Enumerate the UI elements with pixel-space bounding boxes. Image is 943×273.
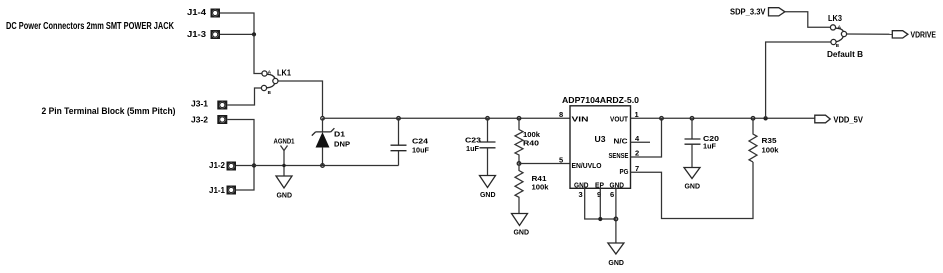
- capacitor C20: [685, 118, 701, 167]
- svg-text:GND: GND: [610, 180, 625, 189]
- wire LK1 common to VIN rail: [278, 81, 323, 117]
- resistor R35: [749, 118, 757, 162]
- connector pin J3-2: [217, 115, 227, 124]
- wire bottom rail (AGND net): [236, 165, 399, 167]
- junction node VOUT rail / R35: [751, 117, 755, 121]
- svg-text:LK3: LK3: [828, 13, 842, 23]
- resistor R41: [515, 164, 523, 214]
- wire J1-4 to node: [220, 13, 254, 34]
- capacitor C24: [391, 118, 407, 165]
- wire LK1 B to J3-1: [227, 88, 261, 105]
- wire LK3 B to VOUT rail: [766, 42, 831, 118]
- svg-text:1uF: 1uF: [466, 144, 479, 153]
- net flag SDP_3.3V: [769, 8, 785, 16]
- junction node pin6 corner: [614, 217, 618, 221]
- svg-text:C24: C24: [412, 137, 429, 146]
- svg-text:100k: 100k: [532, 182, 550, 191]
- svg-text:VOUT: VOUT: [610, 114, 628, 123]
- svg-text:5: 5: [559, 155, 563, 164]
- junction node VIN rail / C23: [486, 117, 490, 121]
- svg-text:7: 7: [635, 164, 639, 173]
- svg-text:1: 1: [635, 110, 639, 119]
- junction dot VOUT rail / LK3 B drop: [763, 116, 767, 120]
- connector pin J1-3: [211, 30, 221, 39]
- svg-text:PG: PG: [620, 167, 629, 176]
- wire pin6 stub: [615, 188, 617, 219]
- resistor R40: [515, 118, 523, 163]
- svg-text:GND: GND: [514, 228, 530, 237]
- svg-text:VIN: VIN: [572, 114, 589, 123]
- jumper LK1: [261, 70, 278, 95]
- power symbol AGND1 fork: [281, 146, 288, 151]
- svg-text:DNP: DNP: [334, 140, 350, 149]
- svg-text:ADP7104ARDZ-5.0: ADP7104ARDZ-5.0: [562, 95, 639, 105]
- svg-text:B: B: [836, 43, 840, 48]
- wire VIN rail: [323, 117, 571, 119]
- svg-text:1uF: 1uF: [703, 142, 716, 151]
- pin 4 N/C stub: [631, 141, 651, 143]
- svg-text:8: 8: [559, 110, 563, 119]
- junction node VIN rail / LK1 drop: [321, 117, 325, 121]
- svg-text:J1-1: J1-1: [209, 185, 225, 195]
- svg-text:VDRIVE: VDRIVE: [911, 30, 937, 39]
- diode D1 (zener, DNP): [312, 118, 335, 165]
- wire J1-1 to bottom rail: [236, 166, 254, 191]
- wire J3-2 to bottom rail: [227, 120, 254, 166]
- svg-text:J3-2: J3-2: [191, 114, 208, 124]
- svg-text:GND: GND: [277, 191, 293, 200]
- svg-text:R35: R35: [762, 136, 777, 145]
- ground symbol GND (C20): [684, 168, 701, 191]
- svg-text:J1-3: J1-3: [187, 29, 206, 39]
- junction node EN divider: [517, 162, 521, 166]
- junction node VOUT rail / C20: [690, 117, 694, 121]
- svg-text:GND: GND: [480, 190, 496, 199]
- svg-text:DC Power Connectors 2mm SMT PO: DC Power Connectors 2mm SMT POWER JACK: [6, 21, 175, 32]
- wire VOUT rail: [631, 117, 815, 119]
- wire EN/UVLO to U3 pin 5: [519, 163, 570, 165]
- svg-text:2 Pin Terminal Block (5mm Pitc: 2 Pin Terminal Block (5mm Pitch): [42, 106, 176, 117]
- wire SENSE pin 2 to VOUT rail: [631, 118, 662, 157]
- svg-text:SENSE: SENSE: [609, 151, 629, 160]
- svg-text:EN/UVLO: EN/UVLO: [572, 161, 602, 170]
- svg-text:A: A: [268, 70, 272, 75]
- svg-text:LK1: LK1: [277, 68, 291, 78]
- connector pin J1-2: [227, 162, 237, 171]
- wire SDP_3.3V to LK3 A: [785, 12, 831, 27]
- svg-text:EP: EP: [595, 180, 604, 189]
- svg-text:Default B: Default B: [827, 50, 863, 59]
- svg-text:GND: GND: [574, 180, 589, 189]
- wire AGND1 to rail and GND: [283, 151, 285, 177]
- connector pin J3-1: [217, 101, 227, 110]
- junction dot AGND1 on rail: [282, 164, 285, 167]
- svg-text:B: B: [268, 90, 272, 95]
- svg-text:6: 6: [610, 190, 614, 199]
- junction dot bottom rail node: [252, 163, 256, 167]
- svg-text:D1: D1: [334, 130, 345, 139]
- svg-text:100k: 100k: [762, 145, 780, 154]
- ground symbol GND (R41): [512, 214, 530, 237]
- connector pin J1-1: [227, 186, 237, 195]
- capacitor C23: [480, 118, 496, 175]
- svg-text:J1-2: J1-2: [209, 160, 225, 170]
- junction dot J1 node: [252, 32, 256, 36]
- svg-text:U3: U3: [595, 135, 607, 144]
- svg-text:GND: GND: [608, 258, 624, 267]
- IC U3 body: [570, 106, 631, 189]
- svg-text:N/C: N/C: [614, 137, 629, 146]
- svg-text:J3-1: J3-1: [191, 99, 208, 109]
- junction node VOUT rail / SENSE: [660, 117, 664, 121]
- svg-text:R40: R40: [523, 139, 539, 148]
- U3 bottom GND pins wiring: [585, 188, 616, 243]
- wire PG route: [631, 162, 754, 219]
- svg-text:AGND1: AGND1: [274, 139, 295, 146]
- net flag VDRIVE: [892, 31, 908, 38]
- svg-text:J1-4: J1-4: [187, 7, 206, 17]
- junction node bottom rail / D1: [321, 164, 325, 168]
- junction node VIN rail / R40: [517, 117, 521, 121]
- junction dot EP node: [598, 217, 602, 221]
- junction node VIN rail / C24: [397, 117, 401, 121]
- svg-text:2: 2: [635, 148, 639, 157]
- svg-text:GND: GND: [685, 182, 701, 191]
- ground symbol GND (C23): [480, 176, 497, 200]
- svg-text:VDD_5V: VDD_5V: [833, 115, 863, 124]
- ground symbol GND (U3): [608, 243, 625, 267]
- wire EP pin stub: [599, 188, 601, 219]
- jumper LK3: [830, 25, 846, 48]
- net flag VDD_5V: [815, 115, 830, 123]
- connector pin J1-4: [211, 9, 221, 18]
- svg-text:SDP_3.3V: SDP_3.3V: [730, 8, 766, 17]
- wire LK3 common to VDRIVE: [847, 33, 893, 35]
- svg-text:4: 4: [635, 134, 640, 143]
- svg-text:10uF: 10uF: [412, 146, 429, 155]
- wire node down to LK1 A: [254, 34, 262, 73]
- ground symbol GND (AGND1): [276, 176, 293, 200]
- wire J1-3 to node: [220, 33, 254, 35]
- svg-text:3: 3: [579, 190, 583, 199]
